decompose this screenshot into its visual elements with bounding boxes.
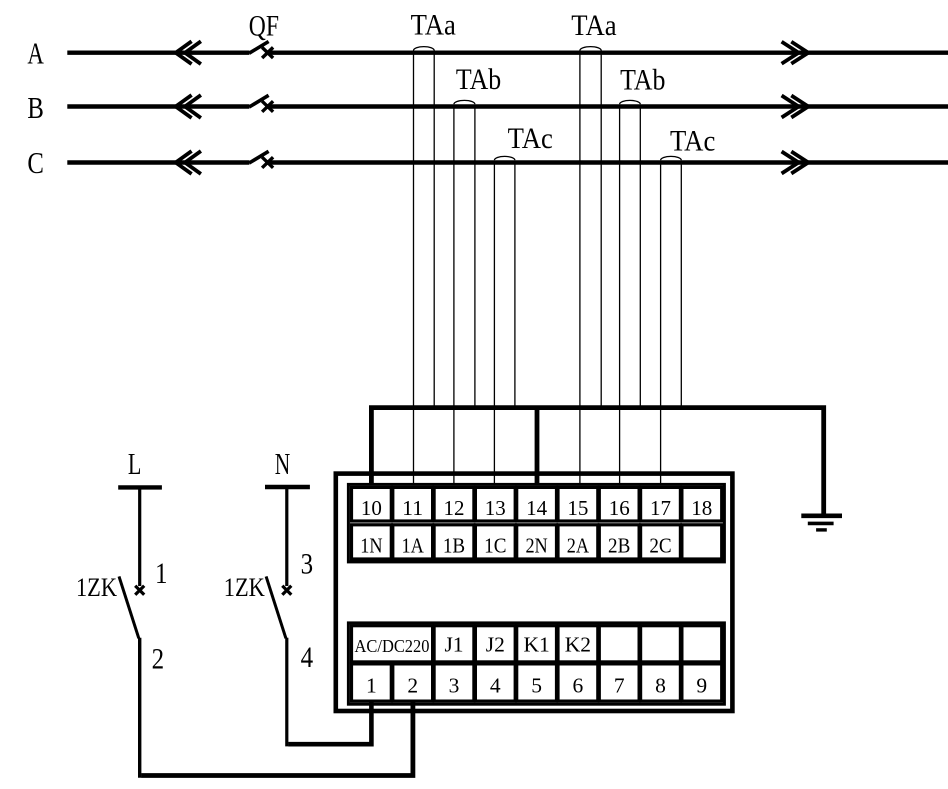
wire switch N lower <box>285 638 288 747</box>
svg-text:C: C <box>27 146 44 180</box>
terminal cell AC/DC220 <box>352 626 433 662</box>
terminal cell K1 <box>517 626 557 662</box>
svg-text:16: 16 <box>609 496 630 520</box>
wire phase A left segment <box>67 51 249 55</box>
svg-text:AC/DC220: AC/DC220 <box>355 636 430 656</box>
terminal cell 2 <box>393 664 433 701</box>
svg-text:18: 18 <box>691 496 712 520</box>
wire terminal 1 to N switch <box>288 700 371 744</box>
terminal cell 2B <box>599 525 639 559</box>
switch 1ZK (L) contact x <box>135 586 144 595</box>
svg-text:1ZK: 1ZK <box>224 572 265 602</box>
terminal cell 4 <box>475 664 515 701</box>
svg-text:1C: 1C <box>484 534 506 558</box>
terminal cell 2C <box>641 525 681 559</box>
svg-text:2A: 2A <box>567 534 590 558</box>
terminal cell 10 <box>352 487 392 521</box>
svg-text:B: B <box>27 91 44 125</box>
svg-text:1A: 1A <box>402 534 425 558</box>
wire phase A right segment <box>266 51 948 55</box>
svg-text:1N: 1N <box>360 534 383 558</box>
svg-text:5: 5 <box>531 673 542 697</box>
terminal cell blank <box>599 626 639 662</box>
svg-text:2B: 2B <box>608 534 630 558</box>
terminal cell J2 <box>475 626 515 662</box>
svg-text:9: 9 <box>696 673 707 697</box>
terminal cell 15 <box>558 487 598 521</box>
CT TAc set1 <box>494 156 515 486</box>
svg-text:17: 17 <box>650 496 671 520</box>
arrow left phase B <box>176 95 201 118</box>
breaker QF pole phase C <box>249 151 273 168</box>
wire phase B right segment <box>266 104 948 108</box>
svg-text:K2: K2 <box>565 633 591 657</box>
switch 1ZK (N) contact x <box>282 586 291 595</box>
wire phase C right segment <box>266 160 948 164</box>
terminal cell 8 <box>641 664 681 701</box>
wire L stem <box>138 487 141 586</box>
terminal strip lower outer <box>348 623 724 704</box>
svg-text:J1: J1 <box>444 633 463 657</box>
ground <box>801 516 842 530</box>
svg-text:A: A <box>27 36 44 70</box>
terminal cell 11 <box>393 487 433 521</box>
wire switch L lower <box>138 638 141 778</box>
svg-text:TAa: TAa <box>571 9 616 42</box>
terminal cell 1A <box>393 525 433 559</box>
terminal cell 5 <box>517 664 557 701</box>
arrow right phase B <box>782 96 809 118</box>
svg-text:2: 2 <box>152 643 165 676</box>
terminal cell blank <box>682 525 722 559</box>
switch 1ZK (L) blade <box>119 576 139 638</box>
CT TAa set1 <box>414 47 435 487</box>
svg-text:7: 7 <box>614 673 625 697</box>
terminal cell 1N <box>352 525 392 559</box>
svg-text:N: N <box>275 447 291 481</box>
wire secondary common bus <box>371 408 823 516</box>
terminal cell 17 <box>641 487 681 521</box>
svg-text:3: 3 <box>449 673 460 697</box>
terminal cell 18 <box>682 487 722 521</box>
wire phase C left segment <box>67 160 249 164</box>
terminal cell K2 <box>558 626 598 662</box>
svg-text:2C: 2C <box>649 534 671 558</box>
terminal cell J1 <box>434 626 474 662</box>
svg-text:4: 4 <box>490 673 501 697</box>
arrow left phase A <box>176 41 201 64</box>
terminal cell 9 <box>682 664 722 701</box>
svg-text:14: 14 <box>526 496 547 520</box>
svg-text:12: 12 <box>444 496 465 520</box>
wire bus drop to terminal 14 <box>535 408 540 487</box>
svg-text:K1: K1 <box>523 633 549 657</box>
svg-text:1: 1 <box>155 557 168 590</box>
terminal cell blank <box>682 626 722 662</box>
terminal cell 1 <box>352 664 392 701</box>
svg-text:2: 2 <box>407 673 418 697</box>
svg-text:4: 4 <box>301 641 314 674</box>
svg-text:TAa: TAa <box>411 8 456 41</box>
terminal cell 7 <box>599 664 639 701</box>
terminal cell 1B <box>434 525 474 559</box>
svg-text:8: 8 <box>655 673 666 697</box>
svg-text:1: 1 <box>366 673 377 697</box>
terminal cell 14 <box>517 487 557 521</box>
terminal L <box>118 485 162 489</box>
terminal cell 13 <box>475 487 515 521</box>
breaker QF pole phase B <box>249 95 273 112</box>
svg-text:1ZK: 1ZK <box>76 572 117 602</box>
terminal N <box>265 485 310 489</box>
CT TAa set2 <box>580 47 601 487</box>
svg-text:TAb: TAb <box>620 63 665 96</box>
svg-text:13: 13 <box>485 496 506 520</box>
arrow left phase C <box>176 151 201 174</box>
terminal cell 2N <box>517 525 557 559</box>
terminal cell 16 <box>599 487 639 521</box>
terminal cell 2A <box>558 525 598 559</box>
svg-text:3: 3 <box>301 548 314 581</box>
svg-text:TAc: TAc <box>508 122 553 155</box>
arrow right phase A <box>782 42 809 64</box>
wire N stem <box>285 487 288 586</box>
switch 1ZK (N) blade <box>266 576 286 638</box>
breaker QF pole phase A <box>249 42 273 59</box>
svg-text:J2: J2 <box>486 633 505 657</box>
svg-text:11: 11 <box>402 496 423 520</box>
svg-text:15: 15 <box>567 496 588 520</box>
terminal cell 6 <box>558 664 598 701</box>
svg-text:TAb: TAb <box>456 63 501 96</box>
terminal cell 1C <box>475 525 515 559</box>
arrow right phase C <box>782 152 809 174</box>
wire terminal 2 to L switch <box>141 700 413 776</box>
svg-text:6: 6 <box>573 673 584 697</box>
svg-text:2N: 2N <box>525 534 548 558</box>
wire phase B left segment <box>67 104 249 108</box>
svg-text:1B: 1B <box>443 534 465 558</box>
svg-text:QF: QF <box>249 10 279 43</box>
terminal cell blank <box>641 626 681 662</box>
svg-text:TAc: TAc <box>670 125 715 158</box>
CT TAc set2 <box>661 156 682 486</box>
svg-text:10: 10 <box>361 496 382 520</box>
terminal cell 12 <box>434 487 474 521</box>
CT TAb set2 <box>620 100 641 486</box>
terminal strip upper outer <box>348 484 724 562</box>
device box <box>336 474 733 711</box>
terminal cell 3 <box>434 664 474 701</box>
svg-text:L: L <box>128 447 141 481</box>
CT TAb set1 <box>454 100 475 486</box>
